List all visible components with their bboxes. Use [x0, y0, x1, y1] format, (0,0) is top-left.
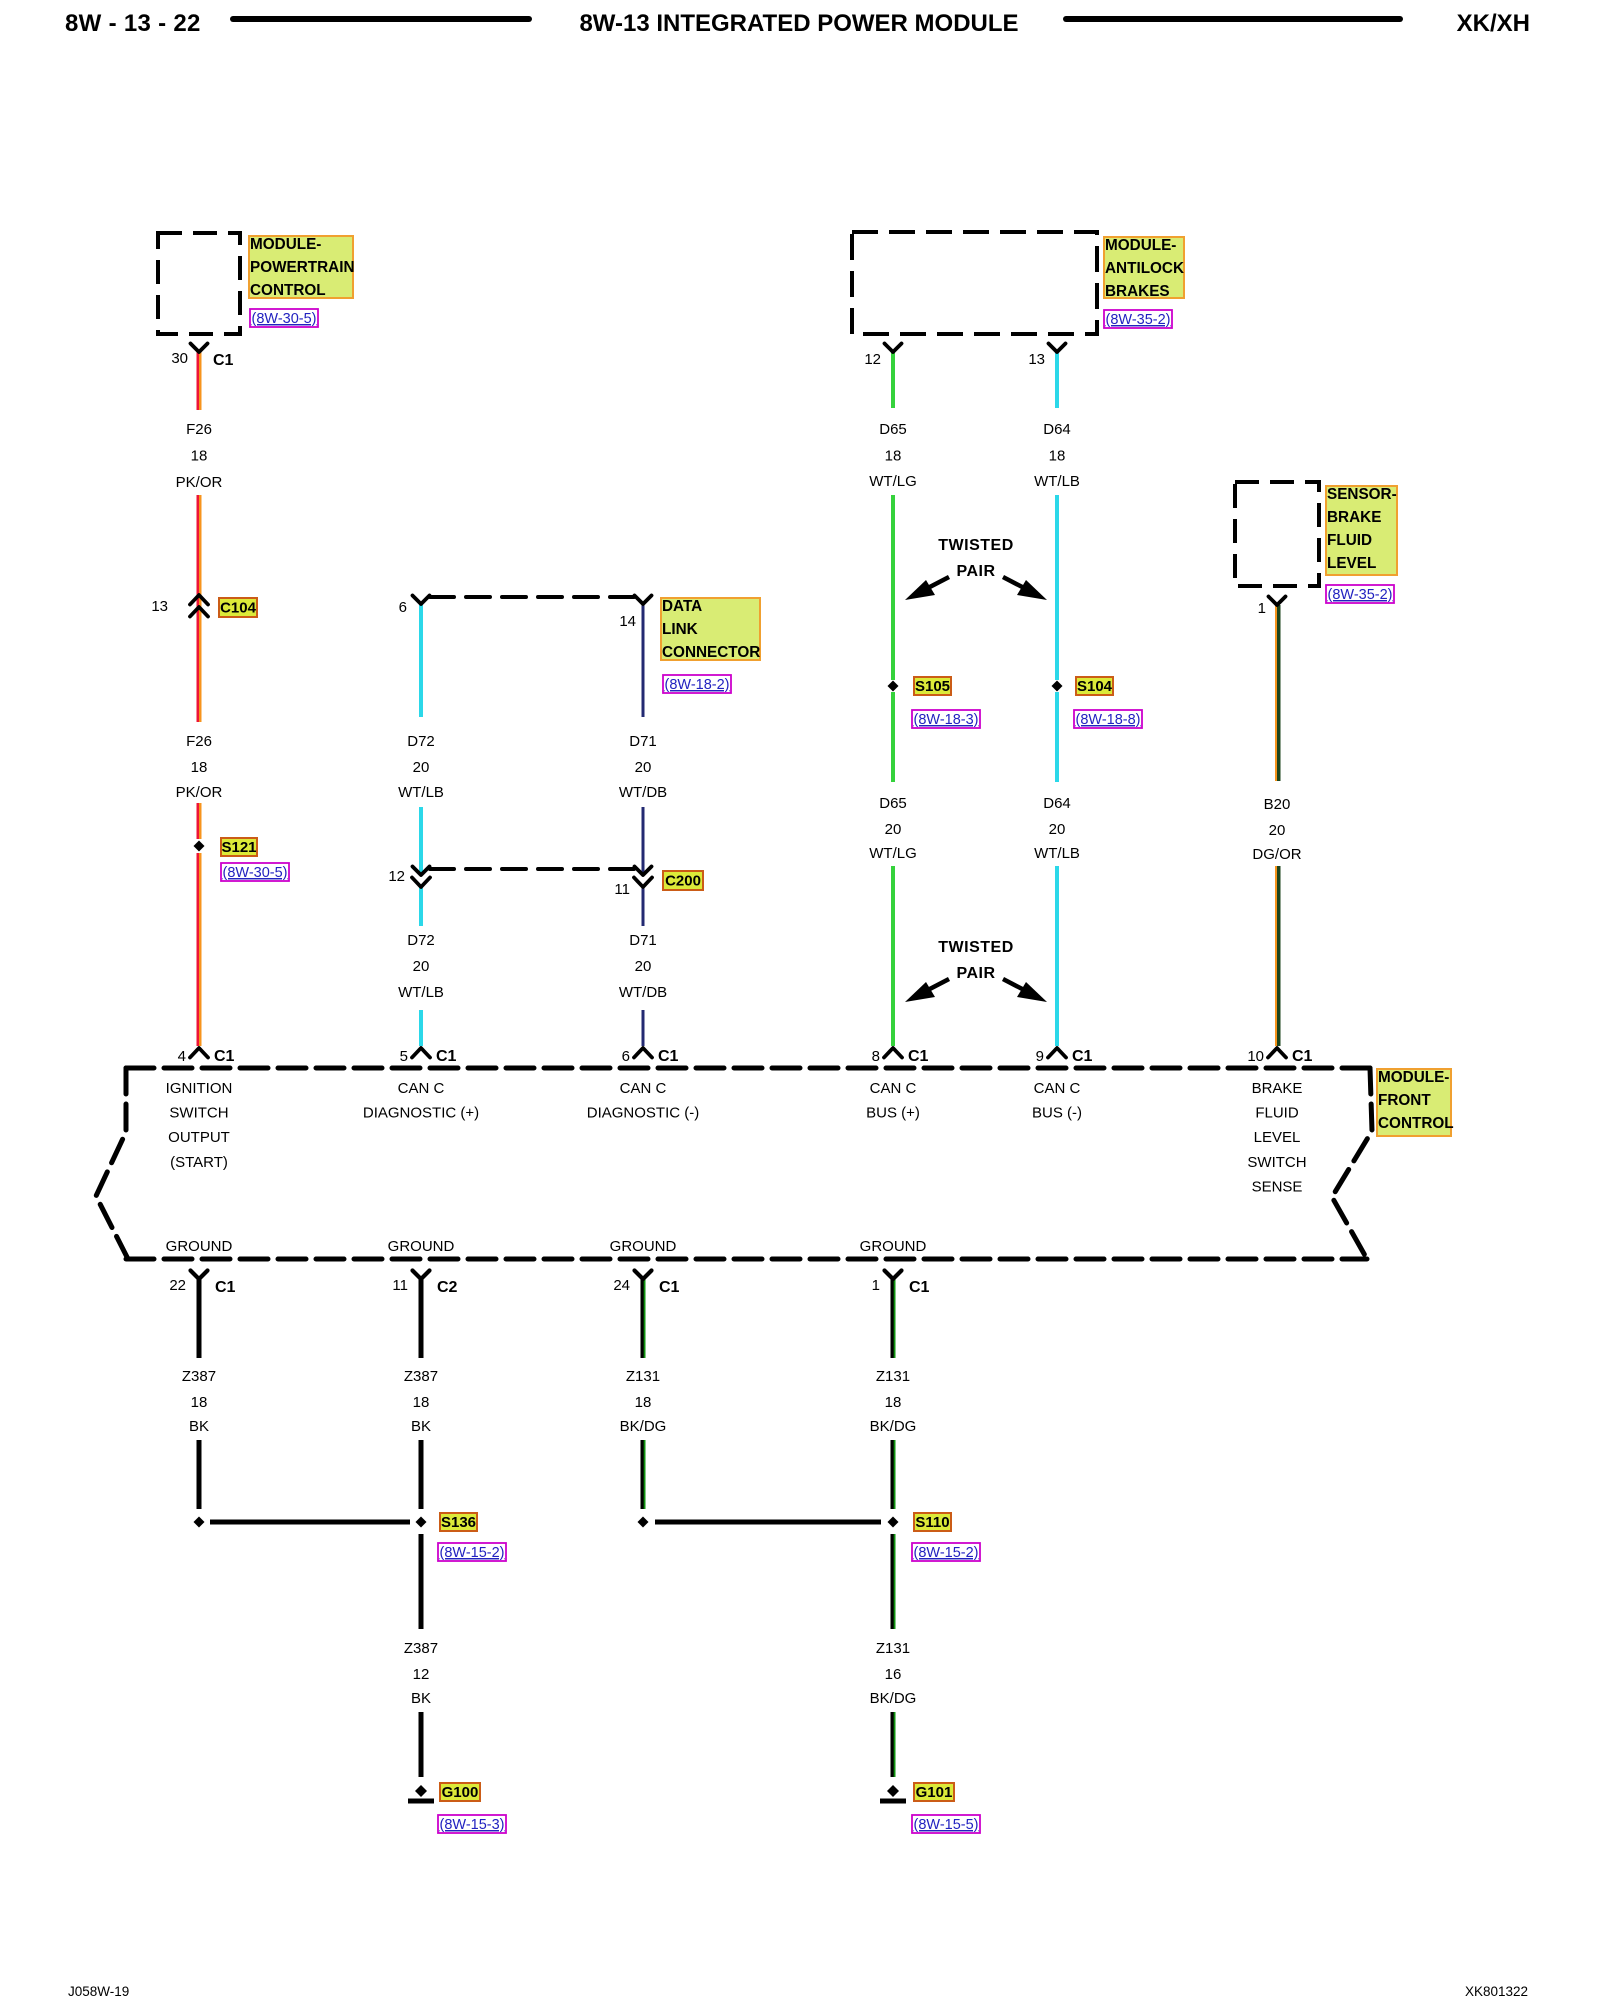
- svg-text:DG/OR: DG/OR: [1252, 846, 1301, 863]
- svg-text:Z131: Z131: [626, 1368, 660, 1385]
- svg-text:8W-13 INTEGRATED POWER MODULE: 8W-13 INTEGRATED POWER MODULE: [579, 10, 1018, 37]
- svg-text:WT/DB: WT/DB: [619, 784, 667, 801]
- svg-text:4: 4: [178, 1048, 186, 1065]
- svg-text:WT/LB: WT/LB: [398, 784, 444, 801]
- svg-text:12: 12: [388, 868, 405, 885]
- svg-text:20: 20: [1049, 821, 1066, 838]
- svg-text:LEVEL: LEVEL: [1254, 1129, 1301, 1146]
- svg-text:C1: C1: [215, 1279, 236, 1296]
- svg-text:D72: D72: [407, 932, 435, 949]
- svg-text:C1: C1: [1292, 1048, 1313, 1065]
- svg-text:20: 20: [1269, 822, 1286, 839]
- svg-text:CAN C: CAN C: [620, 1080, 667, 1097]
- svg-text:12: 12: [864, 351, 881, 368]
- svg-text:1: 1: [1258, 600, 1266, 617]
- svg-text:WT/LB: WT/LB: [1034, 845, 1080, 862]
- svg-text:1: 1: [872, 1277, 880, 1294]
- svg-text:WT/LG: WT/LG: [869, 473, 917, 490]
- svg-text:D72: D72: [407, 733, 435, 750]
- svg-text:10: 10: [1247, 1048, 1264, 1065]
- svg-text:TWISTED: TWISTED: [938, 537, 1014, 554]
- svg-text:IGNITION: IGNITION: [166, 1080, 233, 1097]
- svg-text:6: 6: [399, 599, 407, 616]
- svg-text:8W - 13 - 22: 8W - 13 - 22: [65, 10, 201, 37]
- svg-text:PAIR: PAIR: [956, 563, 995, 580]
- svg-text:BK/DG: BK/DG: [620, 1418, 667, 1435]
- svg-text:G101: G101: [916, 1784, 953, 1801]
- svg-text:(START): (START): [170, 1154, 228, 1171]
- svg-text:C2: C2: [437, 1279, 458, 1296]
- svg-text:SENSOR-: SENSOR-: [1327, 486, 1397, 503]
- svg-text:D64: D64: [1043, 421, 1071, 438]
- svg-text:11: 11: [614, 881, 630, 898]
- svg-text:PAIR: PAIR: [956, 965, 995, 982]
- svg-text:SENSE: SENSE: [1252, 1178, 1303, 1195]
- svg-text:CONTROL: CONTROL: [1378, 1115, 1454, 1132]
- svg-text:14: 14: [619, 613, 636, 630]
- svg-text:D64: D64: [1043, 795, 1071, 812]
- svg-text:(8W-18-2): (8W-18-2): [665, 677, 730, 693]
- svg-text:BUS (+): BUS (+): [866, 1105, 920, 1122]
- svg-text:Z131: Z131: [876, 1368, 910, 1385]
- svg-text:20: 20: [635, 958, 652, 975]
- svg-text:20: 20: [413, 759, 430, 776]
- svg-text:BK/DG: BK/DG: [870, 1418, 917, 1435]
- svg-text:DIAGNOSTIC (+): DIAGNOSTIC (+): [363, 1105, 479, 1122]
- svg-text:18: 18: [885, 1394, 902, 1411]
- svg-text:B20: B20: [1264, 796, 1291, 813]
- svg-text:22: 22: [169, 1277, 186, 1294]
- svg-text:DATA: DATA: [662, 598, 702, 615]
- svg-text:12: 12: [413, 1666, 430, 1683]
- svg-text:20: 20: [635, 759, 652, 776]
- svg-text:GROUND: GROUND: [388, 1238, 455, 1255]
- svg-text:XK/XH: XK/XH: [1457, 10, 1530, 37]
- svg-text:D65: D65: [879, 421, 907, 438]
- svg-text:BK: BK: [411, 1418, 431, 1435]
- svg-text:C1: C1: [1072, 1048, 1093, 1065]
- svg-text:18: 18: [191, 448, 208, 465]
- svg-text:SWITCH: SWITCH: [1247, 1154, 1306, 1171]
- svg-text:(8W-15-2): (8W-15-2): [914, 1545, 979, 1561]
- svg-text:S104: S104: [1077, 678, 1113, 695]
- svg-text:20: 20: [885, 821, 902, 838]
- svg-text:6: 6: [622, 1048, 630, 1065]
- svg-text:(8W-35-2): (8W-35-2): [1328, 587, 1393, 603]
- svg-text:GROUND: GROUND: [860, 1238, 927, 1255]
- svg-text:18: 18: [885, 448, 902, 465]
- svg-text:BUS (-): BUS (-): [1032, 1105, 1082, 1122]
- svg-text:18: 18: [635, 1394, 652, 1411]
- svg-text:(8W-15-2): (8W-15-2): [440, 1545, 505, 1561]
- svg-text:SWITCH: SWITCH: [169, 1105, 228, 1122]
- svg-text:WT/LG: WT/LG: [869, 845, 917, 862]
- svg-text:S110: S110: [915, 1514, 949, 1531]
- svg-text:18: 18: [1049, 448, 1066, 465]
- svg-text:D71: D71: [629, 932, 657, 949]
- svg-text:TWISTED: TWISTED: [938, 939, 1014, 956]
- svg-text:BRAKE: BRAKE: [1252, 1080, 1303, 1097]
- svg-text:MODULE-: MODULE-: [1105, 237, 1176, 254]
- svg-text:5: 5: [400, 1048, 408, 1065]
- svg-text:C200: C200: [665, 873, 701, 890]
- svg-text:D71: D71: [629, 733, 657, 750]
- svg-text:BK: BK: [411, 1690, 431, 1707]
- svg-text:XK801322: XK801322: [1465, 1984, 1528, 1999]
- svg-text:(8W-15-5): (8W-15-5): [914, 1817, 979, 1833]
- svg-text:C1: C1: [214, 1048, 235, 1065]
- svg-text:S136: S136: [441, 1514, 476, 1531]
- svg-text:F26: F26: [186, 421, 212, 438]
- svg-text:Z387: Z387: [182, 1368, 216, 1385]
- svg-text:(8W-18-3): (8W-18-3): [914, 712, 979, 728]
- svg-text:30: 30: [171, 350, 188, 367]
- svg-text:OUTPUT: OUTPUT: [168, 1129, 230, 1146]
- svg-text:LINK: LINK: [662, 621, 698, 638]
- svg-text:C1: C1: [658, 1048, 679, 1065]
- svg-text:Z387: Z387: [404, 1368, 438, 1385]
- svg-text:9: 9: [1036, 1048, 1044, 1065]
- svg-text:DIAGNOSTIC (-): DIAGNOSTIC (-): [587, 1105, 700, 1122]
- svg-text:18: 18: [413, 1394, 430, 1411]
- svg-text:16: 16: [885, 1666, 902, 1683]
- svg-text:WT/DB: WT/DB: [619, 984, 667, 1001]
- svg-text:FLUID: FLUID: [1327, 532, 1372, 549]
- svg-text:BK: BK: [189, 1418, 209, 1435]
- svg-text:S121: S121: [221, 839, 256, 856]
- svg-text:18: 18: [191, 1394, 208, 1411]
- svg-text:PK/OR: PK/OR: [176, 474, 223, 491]
- svg-text:24: 24: [613, 1277, 630, 1294]
- svg-text:(8W-30-5): (8W-30-5): [252, 311, 317, 327]
- svg-text:C1: C1: [213, 352, 234, 369]
- svg-text:FRONT: FRONT: [1378, 1092, 1431, 1109]
- svg-text:(8W-35-2): (8W-35-2): [1106, 312, 1171, 328]
- svg-text:(8W-18-8): (8W-18-8): [1076, 712, 1141, 728]
- svg-text:CONNECTOR: CONNECTOR: [662, 644, 760, 661]
- svg-text:CAN C: CAN C: [398, 1080, 445, 1097]
- svg-text:WT/LB: WT/LB: [1034, 473, 1080, 490]
- svg-text:F26: F26: [186, 733, 212, 750]
- svg-text:8: 8: [872, 1048, 880, 1065]
- svg-text:CONTROL: CONTROL: [250, 282, 326, 299]
- svg-text:ANTILOCK: ANTILOCK: [1105, 260, 1184, 277]
- svg-text:C1: C1: [436, 1048, 457, 1065]
- svg-text:13: 13: [151, 598, 168, 615]
- svg-text:BK/DG: BK/DG: [870, 1690, 917, 1707]
- svg-text:(8W-15-3): (8W-15-3): [440, 1817, 505, 1833]
- svg-text:20: 20: [413, 958, 430, 975]
- svg-text:C1: C1: [909, 1279, 930, 1296]
- svg-text:GROUND: GROUND: [610, 1238, 677, 1255]
- svg-text:18: 18: [191, 759, 208, 776]
- svg-text:BRAKES: BRAKES: [1105, 283, 1170, 300]
- svg-text:LEVEL: LEVEL: [1327, 555, 1376, 572]
- svg-text:S105: S105: [915, 678, 950, 695]
- svg-text:G100: G100: [442, 1784, 479, 1801]
- svg-text:C1: C1: [659, 1279, 680, 1296]
- svg-text:Z387: Z387: [404, 1640, 438, 1657]
- svg-text:FLUID: FLUID: [1255, 1105, 1299, 1122]
- svg-text:11: 11: [392, 1277, 408, 1294]
- svg-text:Z131: Z131: [876, 1640, 910, 1657]
- svg-text:C104: C104: [220, 600, 257, 617]
- svg-text:WT/LB: WT/LB: [398, 984, 444, 1001]
- svg-text:GROUND: GROUND: [166, 1238, 233, 1255]
- svg-text:D65: D65: [879, 795, 907, 812]
- svg-text:PK/OR: PK/OR: [176, 784, 223, 801]
- svg-text:MODULE-: MODULE-: [250, 236, 321, 253]
- svg-text:POWERTRAIN: POWERTRAIN: [250, 259, 355, 276]
- svg-text:MODULE-: MODULE-: [1378, 1069, 1449, 1086]
- svg-text:CAN C: CAN C: [1034, 1080, 1081, 1097]
- svg-text:BRAKE: BRAKE: [1327, 509, 1381, 526]
- svg-text:C1: C1: [908, 1048, 929, 1065]
- svg-text:13: 13: [1028, 351, 1045, 368]
- svg-text:(8W-30-5): (8W-30-5): [223, 865, 288, 881]
- svg-text:J058W-19: J058W-19: [68, 1984, 129, 1999]
- svg-text:CAN C: CAN C: [870, 1080, 917, 1097]
